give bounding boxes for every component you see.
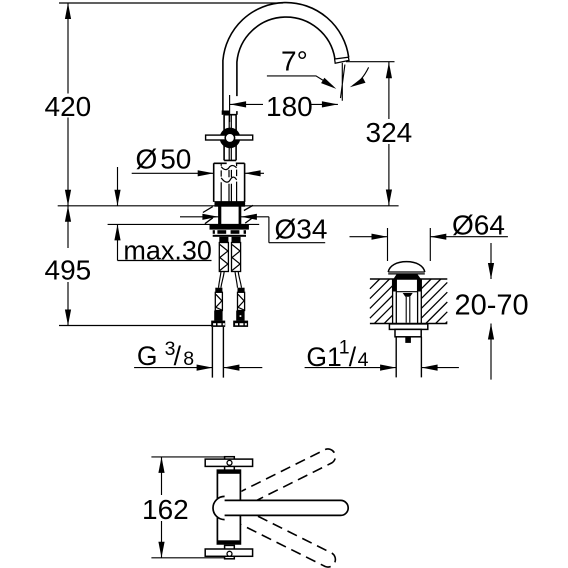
svg-text:Ø34: Ø34 bbox=[275, 214, 328, 245]
svg-text:162: 162 bbox=[142, 494, 189, 525]
svg-text:324: 324 bbox=[366, 117, 413, 148]
svg-text:max.30: max.30 bbox=[123, 235, 212, 265]
svg-text:G: G bbox=[137, 341, 158, 371]
svg-text:/: / bbox=[174, 341, 182, 371]
svg-text:420: 420 bbox=[45, 91, 92, 122]
svg-text:4: 4 bbox=[358, 349, 369, 371]
svg-text:20-70: 20-70 bbox=[455, 290, 529, 322]
svg-text:/: / bbox=[349, 342, 357, 372]
svg-text:Ø64: Ø64 bbox=[452, 210, 505, 241]
svg-text:50: 50 bbox=[160, 143, 191, 174]
svg-text:8: 8 bbox=[183, 348, 194, 370]
svg-text:Ø: Ø bbox=[136, 143, 158, 174]
svg-text:180: 180 bbox=[266, 91, 313, 122]
svg-text:G1: G1 bbox=[306, 342, 341, 372]
svg-text:7°: 7° bbox=[281, 46, 308, 77]
svg-text:495: 495 bbox=[45, 255, 92, 286]
